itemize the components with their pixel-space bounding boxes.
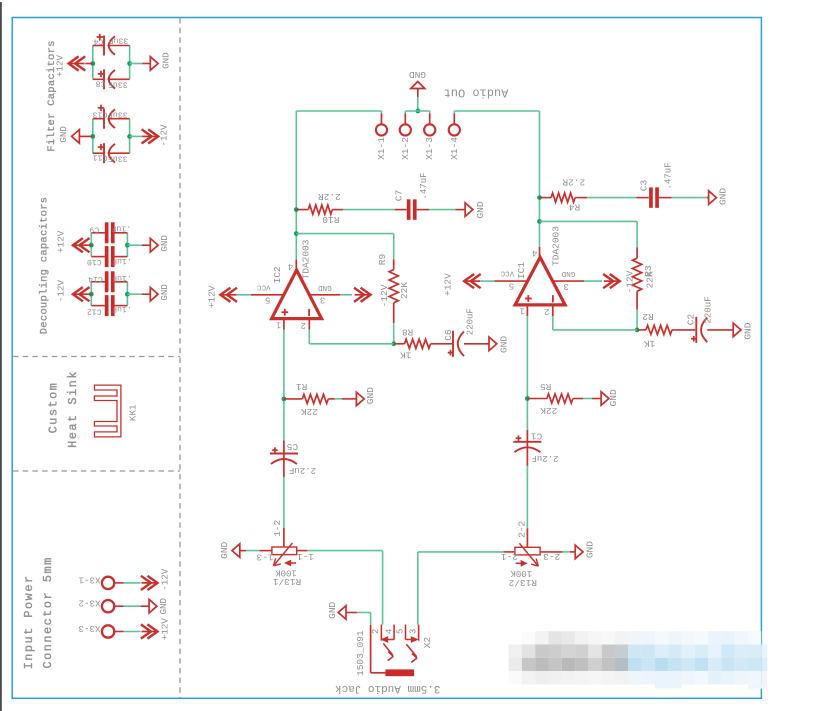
svg-text:Connector 5mm: Connector 5mm	[41, 556, 55, 668]
svg-text:X2: X2	[422, 637, 433, 649]
svg-text:C12: C12	[87, 306, 102, 315]
svg-text:22K: 22K	[399, 282, 410, 299]
svg-text:C11: C11	[93, 153, 108, 162]
svg-text:C7: C7	[394, 190, 405, 201]
svg-text:2: 2	[371, 629, 381, 634]
svg-text:-12V: -12V	[56, 279, 67, 302]
svg-text:GND: GND	[608, 389, 619, 406]
svg-text:TDA2003: TDA2003	[301, 239, 312, 279]
svg-text:GND: GND	[585, 541, 596, 558]
svg-text:Audio Out: Audio Out	[444, 85, 509, 99]
svg-text:C2: C2	[685, 314, 696, 326]
svg-text:R4: R4	[569, 202, 581, 213]
svg-text:2.2uF: 2.2uF	[531, 453, 558, 463]
svg-text:X1-3: X1-3	[424, 137, 435, 160]
svg-text:1K: 1K	[400, 349, 412, 360]
svg-text:IC1: IC1	[516, 262, 527, 279]
svg-text:4: 4	[532, 248, 537, 258]
svg-text:+12V: +12V	[160, 618, 171, 641]
svg-text:GND: GND	[58, 126, 69, 143]
svg-text:.47uF: .47uF	[419, 172, 429, 199]
svg-text:C4: C4	[94, 36, 104, 45]
svg-text:4: 4	[288, 261, 293, 271]
svg-text:.1uF: .1uF	[112, 273, 132, 282]
svg-text:GND: GND	[219, 541, 230, 558]
svg-text:R8: R8	[402, 326, 414, 337]
svg-text:33uF: 33uF	[108, 80, 128, 89]
svg-text:33uF: 33uF	[108, 109, 128, 118]
svg-text:GND: GND	[159, 284, 170, 301]
svg-text:2: 2	[544, 306, 549, 316]
svg-text:R13/1: R13/1	[272, 576, 301, 587]
svg-text:R1: R1	[296, 381, 308, 392]
svg-text:3: 3	[320, 295, 325, 305]
svg-text:5: 5	[509, 281, 514, 291]
svg-text:GND: GND	[159, 235, 170, 252]
svg-text:2: 2	[301, 320, 306, 330]
svg-text:4: 4	[384, 629, 394, 634]
svg-text:R9: R9	[377, 254, 388, 266]
svg-text:R5: R5	[540, 381, 552, 392]
svg-text:IC2: IC2	[272, 266, 283, 283]
svg-text:GND: GND	[158, 597, 169, 614]
svg-text:X1-2: X1-2	[400, 137, 411, 160]
svg-text:1-1: 1-1	[297, 551, 314, 562]
svg-text:R2: R2	[642, 311, 654, 322]
svg-text:+12V: +12V	[206, 285, 217, 308]
svg-text:220uF: 220uF	[466, 308, 476, 335]
svg-text:GND: GND	[318, 283, 332, 291]
svg-text:KK1: KK1	[128, 404, 139, 421]
svg-text:GND: GND	[161, 52, 172, 69]
svg-text:33uF: 33uF	[108, 154, 128, 163]
svg-text:22K: 22K	[645, 271, 656, 288]
svg-text:22K: 22K	[301, 406, 318, 417]
svg-text:GND: GND	[409, 69, 426, 80]
svg-text:100K: 100K	[275, 567, 297, 577]
svg-text:3.5mm Audio Jack: 3.5mm Audio Jack	[334, 682, 440, 694]
svg-text:VCC: VCC	[257, 282, 271, 290]
svg-text:3: 3	[563, 281, 568, 291]
svg-text:.1uF: .1uF	[112, 256, 132, 265]
svg-text:5: 5	[396, 629, 406, 634]
svg-text:220uF: 220uF	[704, 296, 714, 323]
svg-text:X3-2: X3-2	[78, 598, 100, 609]
svg-text:C14: C14	[88, 274, 103, 283]
svg-text:C6: C6	[443, 329, 454, 341]
svg-text:33uF: 33uF	[109, 36, 129, 45]
svg-text:Decoupling capacitors: Decoupling capacitors	[38, 197, 50, 335]
svg-text:TDA2003: TDA2003	[550, 226, 561, 266]
svg-text:1-3: 1-3	[256, 551, 273, 562]
svg-text:+12V: +12V	[56, 230, 67, 253]
svg-text:Input Power: Input Power	[22, 574, 36, 669]
svg-text:22K: 22K	[540, 405, 557, 416]
svg-text:C3: C3	[639, 180, 650, 192]
svg-text:1503_091: 1503_091	[355, 630, 366, 676]
svg-text:1: 1	[519, 306, 524, 316]
svg-text:C8: C8	[96, 79, 106, 88]
svg-text:.1uF: .1uF	[112, 304, 132, 313]
svg-text:R10: R10	[322, 214, 339, 225]
svg-text:GND: GND	[475, 201, 486, 218]
svg-text:-12V: -12V	[160, 568, 171, 591]
svg-text:+12V: +12V	[55, 54, 66, 77]
svg-text:X1-1: X1-1	[376, 137, 387, 160]
svg-text:2-3: 2-3	[543, 551, 560, 562]
svg-text:5: 5	[265, 294, 270, 304]
svg-text:.1uF: .1uF	[111, 223, 131, 232]
svg-text:-12V: -12V	[159, 124, 170, 147]
svg-text:GND: GND	[499, 336, 510, 353]
svg-text:C5: C5	[286, 441, 298, 452]
svg-text:.47uF: .47uF	[663, 162, 673, 189]
svg-text:C13: C13	[93, 110, 108, 119]
svg-text:GND: GND	[743, 322, 754, 339]
svg-text:R13/2: R13/2	[508, 577, 537, 588]
svg-text:1-2: 1-2	[272, 519, 283, 536]
svg-text:2.2uF: 2.2uF	[289, 465, 316, 475]
svg-text:GND: GND	[561, 269, 575, 277]
svg-text:GND: GND	[365, 387, 376, 404]
svg-text:+12V: +12V	[443, 273, 454, 296]
svg-text:C1: C1	[531, 430, 543, 441]
svg-text:-12V: -12V	[379, 284, 390, 307]
svg-text:X1-4: X1-4	[449, 137, 460, 160]
svg-text:X3-1: X3-1	[78, 574, 101, 585]
svg-text:GND: GND	[327, 601, 338, 618]
svg-text:GND: GND	[718, 188, 729, 205]
svg-text:2-2: 2-2	[517, 520, 528, 537]
svg-text:2.2R: 2.2R	[318, 191, 341, 202]
svg-text:X3-3: X3-3	[78, 623, 100, 634]
svg-text:C9: C9	[89, 225, 99, 234]
svg-text:1K: 1K	[644, 338, 656, 349]
svg-text:VCC: VCC	[500, 269, 514, 277]
svg-text:C10: C10	[87, 257, 102, 266]
svg-text:Custom: Custom	[47, 382, 61, 434]
svg-text:3: 3	[408, 629, 418, 634]
svg-text:2-1: 2-1	[501, 551, 518, 562]
svg-text:-12V: -12V	[625, 270, 636, 293]
svg-text:100K: 100K	[510, 568, 532, 578]
svg-text:1: 1	[276, 319, 281, 329]
svg-text:Heat Sink: Heat Sink	[66, 370, 80, 448]
svg-text:2.2R: 2.2R	[562, 177, 585, 188]
